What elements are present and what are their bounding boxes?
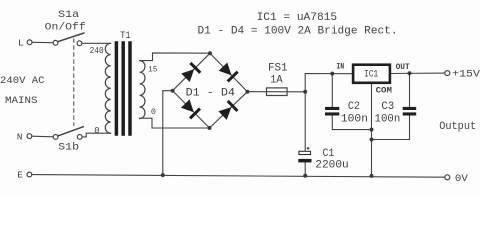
dashed mechanical link S1a-S1b (73, 39, 75, 126)
svg-text:IC1 = uA7815: IC1 = uA7815 (257, 12, 338, 24)
terminal +15V (445, 71, 450, 76)
terminal N (27, 134, 32, 139)
switch S1a blade (58, 33, 84, 42)
svg-text:C2: C2 (348, 101, 360, 113)
svg-text:IC1: IC1 (364, 69, 378, 81)
diode D3 (bridge lower-left) (180, 99, 201, 120)
transformer T1 core (116, 41, 130, 136)
svg-text:0: 0 (151, 107, 156, 117)
junction COM / C2 bottom (370, 128, 374, 132)
diode D4 (bridge lower-right) (218, 100, 239, 121)
svg-text:MAINS: MAINS (5, 96, 38, 107)
diode D2 (bridge upper-right) (218, 62, 239, 83)
junction 0V rail / bridge negative (161, 173, 165, 177)
capacitor C3 plates (403, 107, 417, 116)
bridge diamond wires (173, 53, 210, 90)
svg-text:D1 - D4: D1 - D4 (186, 87, 236, 99)
wire IC1 OUT to +15V terminal (391, 72, 445, 74)
wire secondary bottom to bridge bottom node (140, 118, 210, 128)
switch S1a pole contact (53, 40, 58, 45)
svg-text:0V: 0V (455, 174, 468, 185)
wire S1b to transformer primary bottom (82, 133, 111, 137)
svg-text:+15V: +15V (452, 70, 480, 81)
capacitor C3 leads (409, 73, 411, 107)
svg-text:240: 240 (90, 46, 104, 56)
terminal 0V (445, 175, 450, 180)
svg-text:IN: IN (336, 63, 344, 72)
svg-text:COM: COM (376, 87, 393, 96)
svg-text:S1a: S1a (58, 9, 79, 21)
wire bridge negative node to 0V rail (163, 91, 173, 175)
switch S1a fixed contact (77, 41, 82, 46)
wire N to S1b pole (32, 135, 53, 138)
transformer T1 primary winding (105, 43, 110, 133)
junction OUT wire / C3 top (408, 71, 412, 75)
wire E to 0V rail (32, 175, 445, 178)
svg-text:15: 15 (148, 65, 157, 75)
svg-text:2200u: 2200u (315, 159, 348, 171)
svg-text:On/Off: On/Off (45, 21, 86, 33)
C1 polarity mark (307, 147, 310, 150)
capacitor C1 plates (polarized) (299, 151, 311, 154)
svg-text:D1 - D4 = 100V 2A Bridge Rect.: D1 - D4 = 100V 2A Bridge Rect. (198, 25, 398, 37)
junction 0V rail / COM (370, 174, 374, 178)
IC1 COM lead down to 0V rail (371, 84, 373, 176)
svg-text:N: N (17, 131, 23, 142)
switch S1b blade (58, 127, 84, 136)
terminal E (27, 172, 32, 177)
junction fuse output / C1 top (303, 90, 307, 94)
capacitor C2 plates (325, 107, 339, 116)
svg-text:100n: 100n (375, 113, 401, 125)
wire secondary top to bridge top node (140, 53, 210, 61)
svg-text:C3: C3 (381, 101, 394, 113)
junction IN wire / C2 top (330, 72, 334, 76)
svg-text:0: 0 (94, 126, 99, 136)
fuse FS1 body (267, 88, 288, 96)
capacitor C2 leads (331, 74, 333, 107)
junction bridge AC top node (208, 51, 212, 55)
svg-text:L: L (18, 37, 24, 48)
terminal L (27, 40, 32, 45)
svg-text:1A: 1A (270, 74, 283, 86)
wire L to S1a pole (32, 41, 53, 43)
wire fuse junction up to IC1 IN (305, 74, 352, 92)
junction COM / C3 bottom (370, 138, 374, 142)
switch S1b pole contact (53, 135, 58, 140)
svg-text:S1b: S1b (58, 141, 79, 153)
junction bridge negative node (171, 89, 175, 93)
svg-text:OUT: OUT (396, 63, 410, 72)
transformer T1 secondary winding (140, 61, 145, 119)
svg-text:240V AC: 240V AC (0, 76, 45, 87)
svg-text:Output: Output (439, 121, 476, 133)
svg-text:100n: 100n (341, 113, 368, 125)
wire bridge positive node to fuse and junction (247, 91, 305, 93)
junction 0V rail / C1 bottom (303, 174, 307, 178)
capacitor C1 leads (304, 92, 306, 152)
svg-text:E: E (17, 170, 23, 181)
diode D1 (bridge upper-left) (181, 62, 202, 83)
svg-text:FS1: FS1 (268, 63, 288, 75)
wire S1a to transformer primary top (82, 42, 111, 44)
IC1 regulator box (353, 65, 390, 83)
svg-text:T1: T1 (120, 30, 131, 42)
junction bridge positive node (245, 90, 249, 94)
junction bridge AC bottom node (208, 126, 212, 130)
switch S1b fixed contact (77, 135, 82, 140)
